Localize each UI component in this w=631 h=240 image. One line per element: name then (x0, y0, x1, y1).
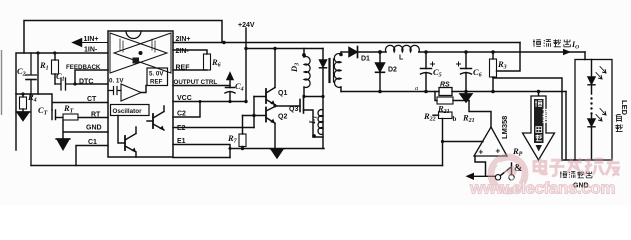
inductor L1 winding (318, 110, 323, 135)
wire secondary ground rail (341, 91, 566, 93)
svg-text:IO: IO (571, 40, 579, 51)
watermark char zi (549, 160, 564, 176)
svg-text:C5: C5 (433, 67, 442, 79)
junction dot b cross (441, 140, 444, 143)
label PWM arrow white text (535, 100, 542, 140)
arrow input 1IN+ (73, 39, 108, 46)
ground G2 (56, 139, 70, 150)
capacitor C2 (26, 53, 37, 166)
switch contact Rp (495, 163, 514, 180)
svg-text:R3: R3 (497, 59, 507, 71)
transistor Q1 (254, 88, 275, 105)
wire chip bottom ext (173, 157, 230, 159)
wire C2 pin (173, 102, 200, 118)
svg-text:L1: L1 (307, 116, 319, 125)
resistor R21 (435, 92, 469, 105)
diode D2 freewheel (376, 52, 385, 92)
wire FEEDBACK stub (75, 70, 108, 84)
watermark char shao (584, 157, 604, 175)
transformer secondary winding (334, 52, 341, 92)
svg-text:R22: R22 (423, 111, 436, 123)
arrow current out (563, 49, 571, 55)
junction dots chip right (199, 41, 256, 117)
svg-text:a: a (415, 85, 418, 92)
svg-text:+: + (496, 147, 501, 156)
svg-text:REF: REF (150, 79, 163, 86)
LED dots ellipsis (590, 97, 592, 114)
svg-text:D3: D3 (289, 63, 301, 73)
wire OUTPUT CTRL (173, 85, 230, 87)
svg-text:C2: C2 (17, 66, 26, 78)
PWM dimmer arrow (523, 96, 555, 160)
Oscillator box (111, 105, 150, 116)
resistor R6 (173, 54, 211, 70)
junction dots output (424, 50, 540, 93)
svg-text:+24V: +24V (238, 22, 255, 29)
svg-text:Q2: Q2 (278, 114, 287, 121)
wire rail corner down (562, 92, 575, 161)
wire node x38 drop (37, 53, 39, 94)
wire b node down (442, 119, 444, 166)
svg-text:C6: C6 (473, 67, 482, 79)
svg-text:R7: R7 (227, 133, 238, 145)
resistor R3 (490, 52, 497, 92)
wire CT pin (16, 94, 108, 110)
X center junction (139, 51, 143, 55)
wire base tie (253, 97, 255, 128)
wire switch-node spine (322, 49, 324, 149)
wire C1 pin (76, 146, 108, 166)
svg-text:LM358: LM358 (500, 116, 509, 139)
svg-text:GND: GND (86, 125, 102, 132)
svg-text:C1: C1 (88, 139, 97, 146)
watermark char fa (567, 158, 582, 174)
svg-text:R1: R1 (39, 60, 49, 72)
wire Q1 collector riser (274, 49, 276, 88)
resistor R22 (433, 112, 452, 119)
svg-text:5. 0V: 5. 0V (149, 71, 164, 78)
wire DTC (75, 83, 108, 85)
arrow feedback left (466, 173, 475, 180)
svg-text:Q1: Q1 (278, 90, 287, 97)
capacitor C5 electrolytic (421, 52, 435, 92)
wire opamp base down to switch line (470, 156, 495, 176)
resistor R1 (52, 53, 59, 84)
watermark (469, 157, 620, 198)
svg-text:R6: R6 (211, 57, 221, 69)
wire top feedback (24, 21, 222, 54)
transformer core bars (328, 59, 330, 82)
svg-text:RT: RT (91, 112, 101, 119)
IC output transistor T2 (118, 116, 136, 158)
svg-text:CT: CT (38, 105, 48, 117)
capacitor C6 electrolytic (457, 52, 472, 92)
svg-text:0. 1V: 0. 1V (109, 78, 124, 85)
svg-text:PWM: PWM (540, 109, 546, 124)
svg-text:b: b (453, 115, 457, 123)
IC U1 TL494 outline (108, 31, 173, 157)
DTC input cap inside IC (108, 87, 121, 95)
svg-text:LED: LED (620, 100, 629, 116)
wire GND pin (63, 120, 108, 139)
svg-text:DTC: DTC (79, 78, 93, 85)
wire 2IN+ long feedback (173, 42, 520, 44)
IC notch (126, 31, 141, 39)
op-amp U2 LM358 (474, 127, 507, 156)
LED load box (575, 60, 612, 161)
svg-text:OUTPUT CTRL: OUTPUT CTRL (174, 79, 218, 86)
resistor RT timing (63, 114, 108, 120)
capacitor CT timing (52, 110, 63, 120)
wire midpoint to Q3 gate (275, 105, 300, 107)
watermark char dian (534, 157, 620, 175)
wire Q2 emitter down (274, 123, 276, 148)
ground below R4 (16, 112, 30, 121)
comparator X left triangle (110, 33, 167, 73)
PWM arrow dark strip (534, 99, 544, 143)
resistor RS current sense (439, 88, 452, 96)
winding D3 primary (304, 49, 310, 97)
capacitor C1 (55, 78, 75, 90)
svg-text:CT: CT (87, 96, 97, 103)
resistor R7 (239, 116, 246, 149)
junction dots power stage (229, 47, 382, 150)
svg-text:R21: R21 (437, 104, 450, 116)
LED string inside (588, 60, 606, 161)
svg-text:L: L (399, 55, 404, 62)
wire +24V rail (246, 48, 323, 50)
watermark char you (606, 158, 620, 175)
IC output transistor T1 (147, 106, 164, 130)
page edge artifact (1, 50, 3, 115)
vcc tag inside IC (133, 58, 140, 64)
ground G3 (270, 149, 284, 158)
wire VCC (173, 101, 246, 103)
svg-text:REF: REF (176, 65, 191, 72)
inductor L output (386, 45, 420, 52)
label constant current output Io (533, 39, 570, 46)
comparator 0.1V triangle (121, 84, 141, 101)
svg-text:D1: D1 (361, 56, 370, 63)
wire E1 (173, 145, 230, 158)
transistor Q2 (243, 107, 276, 124)
svg-text:E1: E1 (177, 138, 186, 145)
svg-text:C1: C1 (56, 71, 65, 83)
label output gnd (560, 171, 592, 177)
diode D1 (341, 47, 380, 58)
watermark logo (491, 157, 525, 191)
svg-text:RS: RS (440, 82, 450, 89)
capacitor C4 electrolytic (225, 73, 235, 102)
wire R3 bottom to LED return (493, 78, 562, 160)
svg-text:2IN+: 2IN+ (176, 36, 191, 43)
comparator X right triangle (114, 33, 171, 73)
svg-text:D2: D2 (388, 67, 397, 74)
svg-text:2IN-: 2IN- (176, 48, 190, 55)
svg-text:FEEDBACK: FEEDBACK (66, 64, 101, 71)
svg-text:R21: R21 (462, 113, 475, 125)
svg-text:1IN-: 1IN- (84, 47, 98, 54)
wire to opamp noninv (469, 101, 491, 128)
wire opamp left input (443, 141, 484, 143)
diode on spine (320, 60, 327, 68)
ground G4 below C6 (460, 92, 472, 103)
svg-text:Q3: Q3 (289, 106, 298, 113)
wire PWM arrow feed (538, 92, 540, 97)
svg-text:Oscillator: Oscillator (113, 108, 143, 115)
svg-text:VCC: VCC (177, 95, 192, 102)
5.0V REF box (147, 68, 168, 86)
resistor R4 (20, 94, 27, 112)
wire E2 (173, 127, 254, 129)
svg-text:1IN+: 1IN+ (84, 36, 99, 43)
wire primary ground rail (230, 148, 324, 150)
svg-text:www.elecfans.com: www.elecfans.com (469, 179, 615, 198)
svg-text:C4: C4 (235, 81, 244, 93)
wire 2IN- (173, 50, 207, 54)
svg-text:C2: C2 (177, 111, 186, 118)
+24V supply (245, 28, 247, 102)
tiny text marks inside X (120, 39, 155, 52)
svg-text:RT: RT (63, 103, 74, 115)
wire R3 sense loop to 2IN+ (497, 43, 521, 72)
svg-text:E2: E2 (177, 125, 186, 132)
wire 1IN- (16, 53, 108, 150)
mosfet Q3 (300, 96, 323, 138)
junction dots left (21, 51, 76, 95)
wire bottom feedback loop (31, 165, 443, 167)
wire output to LED box (584, 52, 586, 60)
svg-text:+: + (479, 148, 484, 157)
